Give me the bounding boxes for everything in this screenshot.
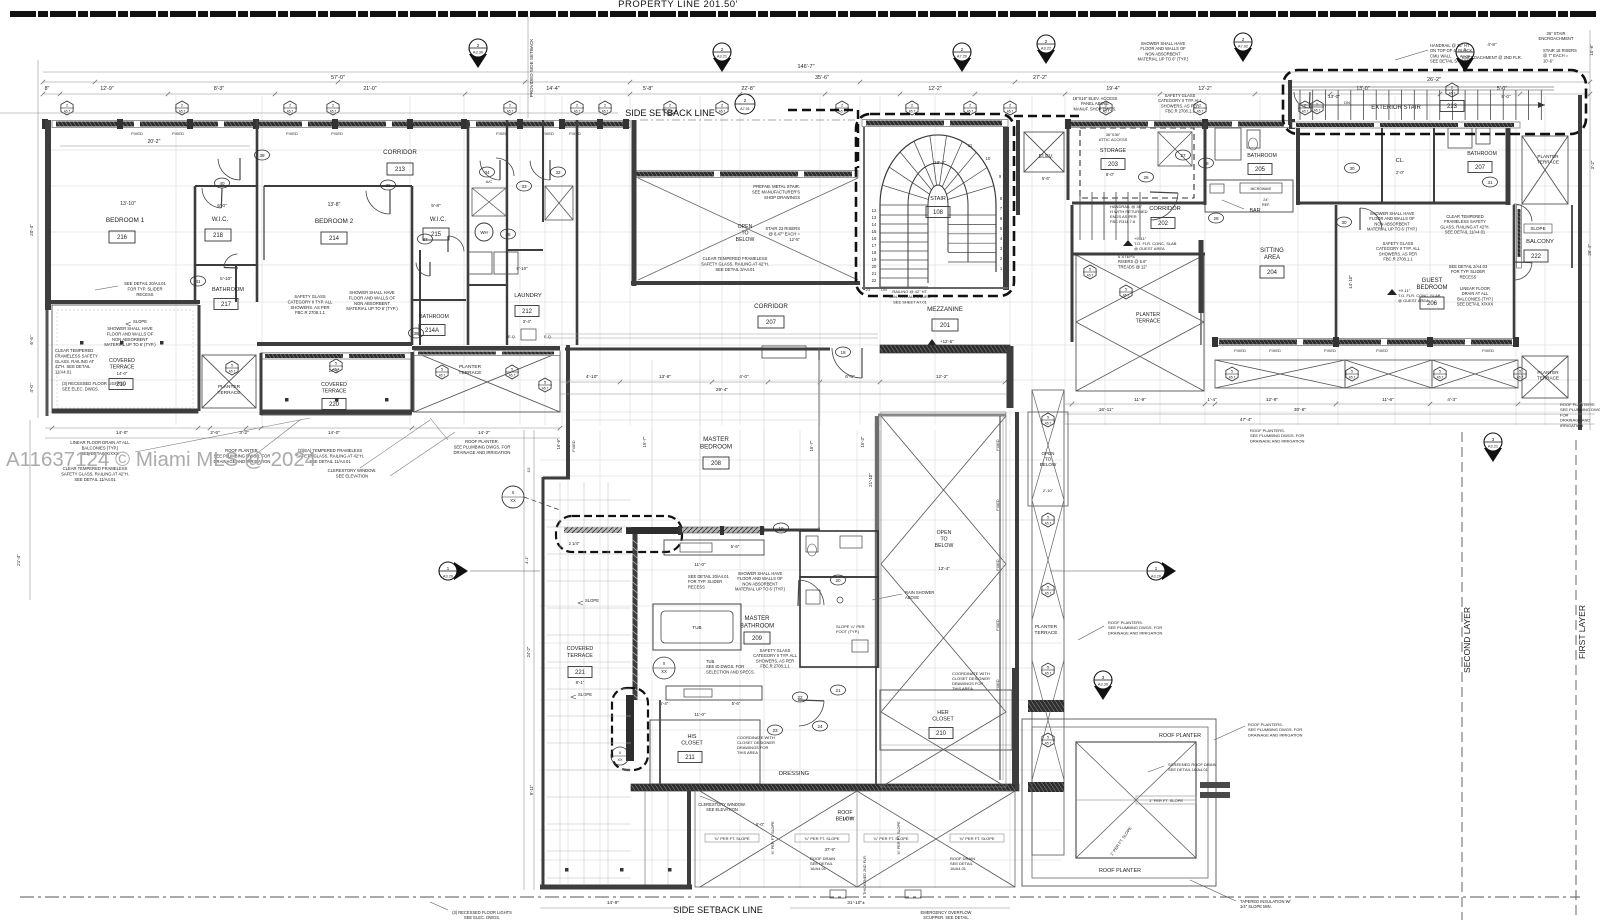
svg-text:A5.7: A5.7 xyxy=(509,374,516,378)
svg-text:PROVIDED SIDE SETBACK: PROVIDED SIDE SETBACK xyxy=(529,38,534,98)
circ 29 xyxy=(1199,158,1214,168)
svg-text:14'-2": 14'-2" xyxy=(478,430,491,436)
svg-text:37'-9": 37'-9" xyxy=(825,847,836,852)
corridor 207 box xyxy=(758,316,784,328)
svg-text:219: 219 xyxy=(116,382,127,388)
svg-text:THIS AREA: THIS AREA xyxy=(952,686,973,691)
svg-text:TERRACE: TERRACE xyxy=(1537,376,1559,381)
svg-text:2: 2 xyxy=(841,104,843,108)
svg-text:4'-1": 4'-1" xyxy=(524,555,529,564)
exterior stair dashed enclosure xyxy=(1283,70,1586,134)
svg-text:5: 5 xyxy=(1519,370,1521,374)
svg-text:BELOW: BELOW xyxy=(1040,462,1057,467)
svg-text:CLEAR TEMPERED FRAMELESS: CLEAR TEMPERED FRAMELESS xyxy=(703,256,768,261)
door arc guest xyxy=(1360,208,1382,229)
svg-text:FLOOR AND WALLS OF: FLOOR AND WALLS OF xyxy=(107,331,154,336)
svg-text:TERRACE: TERRACE xyxy=(1035,630,1058,636)
svg-text:4'-8": 4'-8" xyxy=(1487,42,1497,47)
svg-text:2: 2 xyxy=(66,104,68,108)
open below small box xyxy=(1028,412,1068,506)
svg-text:A3.30: A3.30 xyxy=(473,49,484,54)
bath right fixtures xyxy=(1448,128,1472,148)
svg-text:203: 203 xyxy=(1108,162,1119,168)
svg-text:2: 2 xyxy=(744,98,747,104)
svg-text:FIXED: FIXED xyxy=(131,131,143,136)
svg-text:20'-4": 20'-4" xyxy=(29,224,34,236)
room box 218 xyxy=(205,229,231,241)
svg-text:5: 5 xyxy=(1047,736,1049,740)
svg-text:206: 206 xyxy=(1427,301,1438,307)
svg-text:ROOF PLANTER: ROOF PLANTER xyxy=(1099,868,1141,874)
svg-text:SEE ELEC. DWGS.: SEE ELEC. DWGS. xyxy=(464,915,500,920)
svg-text:5: 5 xyxy=(1047,586,1049,590)
svg-text:A5.7: A5.7 xyxy=(1197,110,1204,114)
svg-text:5: 5 xyxy=(544,381,546,385)
svg-text:FIXED: FIXED xyxy=(569,131,581,136)
window tag hexagon xyxy=(716,101,728,115)
wall: bath north solid xyxy=(764,529,820,532)
svg-text:HIS: HIS xyxy=(688,734,697,740)
svg-text:SEE ELEVATION: SEE ELEVATION xyxy=(336,473,368,478)
roof planter inner square xyxy=(1076,742,1196,858)
svg-text:5: 5 xyxy=(511,368,513,372)
svg-text:SLOPE: SLOPE xyxy=(578,692,592,697)
svg-text:NON ABSORBENT: NON ABSORBENT xyxy=(112,337,149,342)
svg-text:2: 2 xyxy=(669,104,671,108)
svg-text:BEDROOM 2: BEDROOM 2 xyxy=(315,218,354,225)
svg-text:TREADS @ 12": TREADS @ 12" xyxy=(1118,264,1148,269)
section flag 2/A3.30 xyxy=(469,54,487,68)
wall: open below east upper xyxy=(1007,346,1014,408)
svg-text:42"H. SEE DETAIL: 42"H. SEE DETAIL xyxy=(55,364,91,369)
svg-text:BATHROOM: BATHROOM xyxy=(212,287,244,293)
svg-text:5: 5 xyxy=(1125,288,1127,292)
balcony box 222 xyxy=(1524,250,1548,262)
svg-text:PROPERTY LINE 201.50': PROPERTY LINE 201.50' xyxy=(618,0,738,10)
svg-text:RECESS: RECESS xyxy=(136,292,153,297)
door arc elev lobby xyxy=(496,158,514,176)
svg-text:2: 2 xyxy=(1199,104,1201,108)
svg-text:BATHROOM: BATHROOM xyxy=(1467,151,1497,157)
planter tabs dark xyxy=(1200,782,1230,788)
planter xband below right wing xyxy=(1215,360,1345,388)
svg-text:19'-4": 19'-4" xyxy=(1106,86,1119,92)
planter terrace small xbox xyxy=(202,355,256,408)
svg-text:CORRIDOR: CORRIDOR xyxy=(754,303,788,310)
roof below divider xyxy=(856,791,858,887)
wall: bedroom1/wic vertical xyxy=(194,186,197,300)
svg-text:A5.7: A5.7 xyxy=(719,110,726,114)
leader line 1/A3.20 xyxy=(1050,570,1146,572)
svg-text:5'-6": 5'-6" xyxy=(731,544,740,549)
svg-text:SCUPPER. SEE DETAIL: SCUPPER. SEE DETAIL xyxy=(923,915,969,920)
svg-text:BATHROOM: BATHROOM xyxy=(419,314,449,320)
svg-text:15: 15 xyxy=(872,229,877,234)
svg-text:SEE DETAIL 11/A4.01: SEE DETAIL 11/A4.01 xyxy=(74,477,116,482)
hexes planter mid xyxy=(1084,265,1096,279)
svg-text:146'-7": 146'-7" xyxy=(797,64,814,70)
terrace 219 floor dots xyxy=(80,341,84,345)
roof below X panel 1 xyxy=(700,791,857,887)
svg-text:40: 40 xyxy=(219,181,225,186)
section flag 2/A7.02 xyxy=(1234,48,1252,62)
door arc ext stair xyxy=(1294,92,1309,108)
svg-text:BELOW: BELOW xyxy=(935,543,954,549)
section flag 2/A7.20 xyxy=(953,58,971,72)
left lower hairline xyxy=(29,420,31,600)
svg-text:TERRACE: TERRACE xyxy=(459,370,482,376)
svg-text:5'-0": 5'-0" xyxy=(1501,94,1511,99)
svg-text:16'-4": 16'-4" xyxy=(843,816,854,821)
svg-text:2: 2 xyxy=(1316,103,1318,107)
svg-text:21: 21 xyxy=(872,271,877,276)
svg-text:TERRACE: TERRACE xyxy=(218,390,241,396)
terrace 219 south wall xyxy=(52,409,198,414)
clerestory offset lines xyxy=(644,791,646,888)
svg-text:218: 218 xyxy=(213,233,224,239)
svg-text:212: 212 xyxy=(522,309,533,315)
svg-text:SAFETY GLASS. RAILING AT 4: SAFETY GLASS. RAILING AT 42"H. xyxy=(61,471,129,476)
svg-text:TERRACE: TERRACE xyxy=(1537,160,1559,165)
tub note circle xyxy=(653,657,675,679)
svg-text:TO: TO xyxy=(1045,457,1052,462)
svg-text:1/4" SLOPE MIN.: 1/4" SLOPE MIN. xyxy=(1240,904,1272,909)
svg-text:SEE DETAIL X/XXX: SEE DETAIL X/XXX xyxy=(1457,302,1494,307)
dim chain in master bedroom top xyxy=(560,381,1010,383)
svg-text:32: 32 xyxy=(555,170,561,175)
svg-text:223: 223 xyxy=(1447,104,1458,110)
svg-text:47'-4": 47'-4" xyxy=(1240,417,1253,423)
svg-text:TERRACE: TERRACE xyxy=(567,653,593,659)
svg-text:REF.: REF. xyxy=(1262,203,1270,207)
planter terrace right top xbox xyxy=(1522,136,1568,204)
svg-text:5'-8": 5'-8" xyxy=(431,203,441,209)
svg-text:AREA: AREA xyxy=(1264,255,1280,261)
svg-text:14: 14 xyxy=(872,222,877,227)
lower counter xyxy=(666,686,762,700)
svg-text:2'-0": 2'-0" xyxy=(1396,170,1405,175)
svg-text:14'-10": 14'-10" xyxy=(1348,275,1353,289)
svg-text:SHOP DRAWINGS: SHOP DRAWINGS xyxy=(764,195,800,200)
right dim hairline xyxy=(1589,30,1591,430)
svg-text:11/A4.01: 11/A4.01 xyxy=(55,370,72,375)
svg-text:A5.7: A5.7 xyxy=(333,368,340,372)
svg-text:@ GUEST AREA: @ GUEST AREA xyxy=(1398,298,1429,303)
window tag hexagon xyxy=(1004,101,1016,115)
svg-text:6'-0": 6'-0" xyxy=(756,822,765,827)
circ 30b xyxy=(1337,217,1352,227)
svg-text:57'-0": 57'-0" xyxy=(331,75,345,81)
svg-text:OPEN: OPEN xyxy=(738,224,753,230)
svg-text:SLOPE: SLOPE xyxy=(585,598,599,603)
svg-text:16'-7": 16'-7" xyxy=(809,440,814,451)
top dimension line row 3 xyxy=(43,93,1590,95)
svg-text:A3.20: A3.20 xyxy=(1151,573,1162,578)
planter terrace big xbox left wing xyxy=(414,352,560,412)
svg-text:16: 16 xyxy=(872,236,877,241)
svg-text:SEE DETAIL 3/A4.01: SEE DETAIL 3/A4.01 xyxy=(715,267,755,272)
svg-text:5: 5 xyxy=(1047,516,1049,520)
stair enclosure dashed boundary xyxy=(856,114,1014,296)
svg-text:222: 222 xyxy=(1531,254,1542,260)
svg-text:MASTER: MASTER xyxy=(703,436,729,443)
svg-text:TUB: TUB xyxy=(692,625,701,630)
svg-text:A5.7: A5.7 xyxy=(1045,672,1052,676)
svg-text:A5.7: A5.7 xyxy=(1045,592,1052,596)
svg-text:FBC.R 2708.1.1: FBC.R 2708.1.1 xyxy=(1383,257,1413,262)
svg-text:ROOF PLANTER.: ROOF PLANTER. xyxy=(465,439,499,444)
guest box 206 xyxy=(1420,297,1444,309)
svg-text:12'-2": 12'-2" xyxy=(936,374,949,380)
svg-text:11'-0": 11'-0" xyxy=(694,712,706,717)
svg-text:5'-4": 5'-4" xyxy=(660,701,669,706)
svg-text:BELOW: BELOW xyxy=(736,237,755,243)
circled door numbers xyxy=(255,150,270,160)
svg-text:205: 205 xyxy=(1255,167,1266,173)
svg-text:BEDROOM: BEDROOM xyxy=(1416,285,1447,291)
svg-text:DRAINAGE AND IRRIGATION: DRAINAGE AND IRRIGATION xyxy=(1248,732,1302,737)
wall: closet divider xyxy=(659,700,661,784)
terrace 220 floor dots xyxy=(285,398,289,402)
master bedroom box 208 xyxy=(703,457,729,469)
section marker circle 2/A7.01 xyxy=(735,94,755,114)
door arc bath214a xyxy=(416,263,430,277)
svg-text:A5.7: A5.7 xyxy=(1229,376,1236,380)
svg-text:PLANTER: PLANTER xyxy=(459,364,482,370)
storage dashed outline xyxy=(1080,128,1194,198)
wall: bedroom2 left vertical xyxy=(263,186,264,260)
svg-text:18: 18 xyxy=(872,250,877,255)
window tag hexagon xyxy=(327,101,339,115)
svg-text:A3.20: A3.20 xyxy=(443,573,454,578)
storage box 203 xyxy=(1101,159,1125,170)
svg-text:11: 11 xyxy=(968,143,973,148)
shower fixtures xyxy=(806,590,820,604)
svg-text:SEE DETAIL 16/A4.01: SEE DETAIL 16/A4.01 xyxy=(1168,767,1209,772)
svg-text:22: 22 xyxy=(872,278,877,283)
svg-text:BALCONY: BALCONY xyxy=(1526,239,1554,245)
window tag hexagon xyxy=(964,101,976,115)
svg-text:3'-2": 3'-2" xyxy=(1590,160,1595,169)
svg-text:A5.7: A5.7 xyxy=(1437,376,1444,380)
svg-text:14'-0": 14'-0" xyxy=(328,430,341,436)
svg-text:ENCROACHMENT: ENCROACHMENT xyxy=(1538,36,1574,41)
planter big north window band xyxy=(414,351,560,356)
svg-text:5: 5 xyxy=(1439,370,1441,374)
vanity counter top xyxy=(664,540,764,555)
svg-text:23: 23 xyxy=(772,728,778,733)
property line (thick dashed) xyxy=(10,11,1597,17)
elevator shaft xbox xyxy=(1024,132,1064,172)
room box 212 xyxy=(515,306,539,317)
top dimension line row 1 xyxy=(43,71,1590,73)
wall post xyxy=(559,119,565,129)
svg-text:MASTER: MASTER xyxy=(744,616,770,622)
svg-text:23: 23 xyxy=(866,288,870,292)
wall post xyxy=(42,119,48,129)
stub emergency xyxy=(830,890,846,898)
WH circle xyxy=(475,223,493,241)
svg-text:DRAINAGE AND IRRIGATION: DRAINAGE AND IRRIGATION xyxy=(454,450,511,455)
svg-text:MATERIAL UP TO 6" (TYP.): MATERIAL UP TO 6" (TYP.) xyxy=(1138,57,1189,62)
svg-text:A5.7: A5.7 xyxy=(1123,294,1130,298)
svg-text:214A: 214A xyxy=(425,328,439,334)
svg-text:SEE DETAIL 11/A4.01: SEE DETAIL 11/A4.01 xyxy=(1445,230,1486,235)
svg-text:PREFAB. METAL STAIR.: PREFAB. METAL STAIR. xyxy=(753,184,800,189)
svg-text:SEE MANUFACTURER'S: SEE MANUFACTURER'S xyxy=(752,189,800,194)
svg-text:2: 2 xyxy=(181,104,183,108)
svg-text:LINEAR FLOOR DRAIN AT ALL: LINEAR FLOOR DRAIN AT ALL xyxy=(70,440,130,445)
svg-text:FIXED: FIXED xyxy=(996,619,1000,630)
svg-text:220: 220 xyxy=(329,402,340,408)
elevator2 shaft xyxy=(545,186,573,220)
svg-text:SECOND LAYER: SECOND LAYER xyxy=(1462,607,1472,673)
wall post xyxy=(461,119,467,129)
svg-text:A5.7: A5.7 xyxy=(1087,274,1094,278)
stair block top window band xyxy=(862,120,1008,127)
svg-text:¾" PER FT. SLOPE: ¾" PER FT. SLOPE xyxy=(714,836,750,841)
wall post xyxy=(187,119,193,129)
svg-text:TERRACE: TERRACE xyxy=(110,365,135,371)
mezzanine box xyxy=(932,319,958,331)
svg-text:5'-6": 5'-6" xyxy=(1042,176,1051,181)
svg-text:1'-4": 1'-4" xyxy=(1207,397,1217,403)
room box 215 xyxy=(423,228,449,240)
svg-text:14'-4": 14'-4" xyxy=(546,86,559,92)
svg-text:GUEST: GUEST xyxy=(1422,278,1443,284)
svg-text:12'-9": 12'-9" xyxy=(100,86,113,92)
terrace 220 south wall xyxy=(261,410,412,415)
door arc corridor202-bar xyxy=(1151,193,1178,220)
wall post xyxy=(117,119,123,129)
svg-text:ABOVE: ABOVE xyxy=(905,595,919,600)
wall: top band right block xyxy=(1066,121,1290,128)
svg-text:2: 2 xyxy=(721,104,723,108)
svg-text:A5.7: A5.7 xyxy=(542,387,549,391)
svg-text:HER: HER xyxy=(937,710,948,716)
roof planter diagonals xyxy=(1076,742,1196,858)
svg-text:26'-4": 26'-4" xyxy=(1587,244,1592,256)
svg-text:21'-4": 21'-4" xyxy=(16,554,21,566)
flag 1/A3.20 mid xyxy=(1162,562,1176,580)
wall: bedroom2 south / bath region xyxy=(257,342,412,346)
wall: cl area xyxy=(1381,127,1383,203)
heavy dash segment to stair box xyxy=(788,109,856,111)
svg-text:MATERIAL UP TO 6' (TYP.): MATERIAL UP TO 6' (TYP.) xyxy=(1367,227,1418,232)
corridor box 202 xyxy=(1151,218,1175,229)
circ 27 xyxy=(1176,150,1191,160)
svg-text:OPEN: OPEN xyxy=(937,530,952,536)
svg-text:12: 12 xyxy=(872,208,877,213)
wall: right of bathroom xyxy=(1506,122,1511,205)
svg-text:STORAGE: STORAGE xyxy=(1100,148,1127,154)
svg-text:209: 209 xyxy=(752,636,763,642)
terrace walls verticals xyxy=(411,352,414,412)
svg-text:DRAINAGE AND IRRIGATION: DRAINAGE AND IRRIGATION xyxy=(1250,438,1304,443)
svg-text:PLANTER: PLANTER xyxy=(1537,154,1559,159)
svg-text:26'-2": 26'-2" xyxy=(1427,77,1441,83)
circ 30 xyxy=(1345,163,1360,173)
svg-text:SIDE SETBACK LINE: SIDE SETBACK LINE xyxy=(673,905,763,915)
svg-text:A3.30: A3.30 xyxy=(1098,681,1109,686)
svg-text:8'-3": 8'-3" xyxy=(214,86,224,92)
spiral stair treads xyxy=(880,286,928,288)
svg-text:5: 5 xyxy=(335,362,337,366)
svg-text:41: 41 xyxy=(195,279,201,284)
section flag 1/A3.30 xyxy=(1456,58,1474,72)
svg-text:37: 37 xyxy=(422,237,428,242)
hex planter small xyxy=(226,361,238,375)
svg-text:19: 19 xyxy=(872,257,877,262)
svg-text:2: 2 xyxy=(576,104,578,108)
svg-text:2: 2 xyxy=(1009,104,1011,108)
svg-text:22'-8": 22'-8" xyxy=(741,86,754,92)
svg-text:XX: XX xyxy=(661,669,667,674)
svg-text:XX: XX xyxy=(617,758,623,762)
hex planter big3 xyxy=(539,378,551,392)
wall: left exterior lower xyxy=(46,310,49,416)
svg-text:BATHROOM: BATHROOM xyxy=(1247,153,1277,159)
svg-text:CORRIDOR: CORRIDOR xyxy=(383,149,417,156)
wall post xyxy=(332,119,338,129)
his closet box 211 xyxy=(678,752,702,763)
svg-text:SAFETY GLASS: SAFETY GLASS xyxy=(294,294,326,299)
svg-text:PLANTER: PLANTER xyxy=(218,384,241,390)
svg-text:ROOF PLANTER: ROOF PLANTER xyxy=(1159,733,1201,739)
room box 217 xyxy=(214,299,238,310)
svg-text:FIRST LAYER: FIRST LAYER xyxy=(1577,605,1587,659)
AC closet xbox xyxy=(472,188,506,216)
wall: right of elev xyxy=(1067,120,1070,200)
window tag hexagon xyxy=(1194,101,1206,115)
wall: terrace221 west xyxy=(542,477,545,888)
svg-text:CL.: CL. xyxy=(1396,158,1405,164)
svg-text:A7.20: A7.20 xyxy=(957,53,968,58)
svg-text:31'-10"±: 31'-10"± xyxy=(847,900,865,906)
hexes on xband xyxy=(1226,367,1238,381)
svg-text:FLOOR AND WALLS OF: FLOOR AND WALLS OF xyxy=(349,295,396,300)
wall post xyxy=(407,119,413,129)
svg-text:FBC R311.7.8: FBC R311.7.8 xyxy=(1110,219,1136,224)
her closet box 210 xyxy=(929,728,953,739)
svg-text:27'-2": 27'-2" xyxy=(1033,75,1047,81)
svg-text:16'-7": 16'-7" xyxy=(642,436,647,447)
svg-text:207: 207 xyxy=(766,320,777,326)
svg-text:202: 202 xyxy=(1158,221,1169,227)
wall: far right exterior xyxy=(1578,95,1582,430)
open below boundary xyxy=(881,412,1006,787)
wall: top exterior window band bedrooms xyxy=(52,121,630,128)
wall post xyxy=(623,119,629,129)
wall: sitting west xyxy=(1199,240,1204,313)
svg-text:THICKENED 2ND FLR.: THICKENED 2ND FLR. xyxy=(863,855,867,895)
svg-text:4'-10": 4'-10" xyxy=(586,374,599,380)
svg-text:5: 5 xyxy=(1231,370,1233,374)
terrace 220 box xyxy=(322,399,346,410)
svg-text:A5.7: A5.7 xyxy=(1449,92,1456,96)
door arcs bath xyxy=(799,580,824,605)
svg-text:FIXED: FIXED xyxy=(996,499,1000,510)
svg-text:2'-6": 2'-6" xyxy=(210,430,220,436)
pill window dark segment xyxy=(626,527,678,534)
svg-text:E.Q.: E.Q. xyxy=(508,334,516,339)
hex planter big1 xyxy=(436,365,448,379)
svg-text:FIXED: FIXED xyxy=(286,131,298,136)
window tag hexagon xyxy=(664,101,676,115)
svg-text:FIXED: FIXED xyxy=(572,440,576,451)
svg-text:211: 211 xyxy=(685,755,695,761)
balcony walls xyxy=(1571,205,1573,268)
